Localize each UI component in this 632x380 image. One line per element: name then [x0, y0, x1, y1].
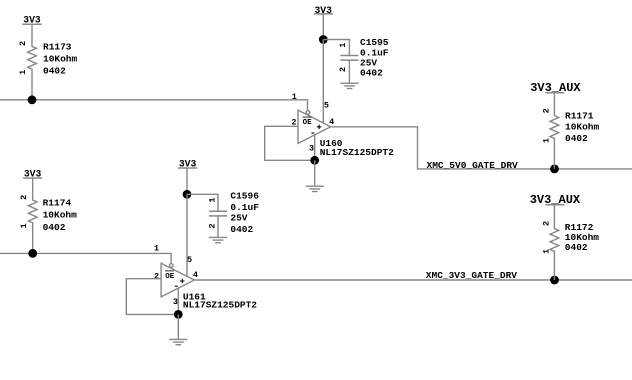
- svg-text:2: 2: [19, 195, 29, 200]
- svg-text:10Kohm: 10Kohm: [43, 210, 78, 221]
- buffer U160 NL17SZ125DPT2: [291, 92, 394, 158]
- svg-text:0402: 0402: [230, 224, 253, 235]
- svg-text:OE: OE: [165, 273, 175, 281]
- svg-text:XMC_5V0_GATE_DRV: XMC_5V0_GATE_DRV: [427, 160, 519, 171]
- ground: C1595: [341, 83, 359, 88]
- svg-text:10Kohm: 10Kohm: [43, 53, 78, 64]
- resistor R1173 10Kohm 0402: [18, 24, 77, 100]
- svg-text:C1596: C1596: [230, 191, 259, 202]
- power symbol 3V3 (above C1596 / U161 VCC): [178, 159, 197, 195]
- svg-text:1: 1: [292, 92, 297, 102]
- junction: R1173 pin 1 on input wire: [28, 95, 37, 104]
- svg-text:0402: 0402: [565, 242, 588, 253]
- wire: 3V3 junction to C1596: [187, 194, 218, 211]
- svg-text:0402: 0402: [43, 222, 66, 233]
- svg-text:0402: 0402: [43, 65, 66, 76]
- junction: 3V3 branch to C1596: [183, 190, 192, 199]
- svg-text:R1173: R1173: [43, 42, 72, 53]
- wire: U161 pin 3 to ground node: [177, 288, 179, 314]
- svg-text:5: 5: [324, 100, 329, 110]
- wire: U161 pin 2 feedback loop to pin 3 node: [126, 279, 178, 315]
- wire: U160 pin 4 output to right edge (XMC_5V0_GATE_DRV): [331, 127, 632, 169]
- svg-text:1: 1: [18, 70, 28, 75]
- junction: U161 pin 3 / pin 2 / ground: [174, 310, 183, 319]
- junction: 3V3 branch to C1595: [319, 35, 328, 44]
- svg-text:0402: 0402: [565, 133, 588, 144]
- power symbol 3V3_AUX (above R1172): [530, 193, 581, 207]
- ground: C1596: [209, 237, 227, 242]
- svg-text:1: 1: [208, 198, 218, 203]
- svg-text:1: 1: [542, 249, 552, 254]
- junction: R1174 pin 1 on input wire: [28, 249, 37, 258]
- svg-text:1: 1: [154, 244, 159, 254]
- capacitor C1595 0.1uF 25V 0402: [338, 37, 389, 83]
- svg-text:C1595: C1595: [360, 37, 389, 48]
- svg-text:25V: 25V: [230, 213, 247, 224]
- svg-text:10Kohm: 10Kohm: [565, 122, 600, 133]
- svg-text:2: 2: [541, 108, 551, 113]
- svg-text:0402: 0402: [360, 68, 383, 79]
- power symbol 3V3 (above R1173): [23, 14, 42, 25]
- svg-text:2: 2: [542, 221, 552, 226]
- svg-text:OE: OE: [303, 119, 313, 127]
- svg-text:5: 5: [187, 255, 192, 265]
- power symbol 3V3_AUX (above R1171): [530, 81, 581, 95]
- wire: U160 pin 2 feedback loop to pin 3 node: [265, 126, 315, 160]
- buffer U161 NL17SZ125DPT2: [154, 244, 257, 311]
- svg-text:2: 2: [154, 272, 159, 282]
- svg-text:0.1uF: 0.1uF: [230, 202, 259, 213]
- resistor R1172 10Kohm 0402: [542, 205, 600, 280]
- svg-text:3: 3: [309, 144, 314, 154]
- svg-text:4: 4: [193, 270, 198, 280]
- junction: R1171 pin 1 on XMC_5V0_GATE_DRV: [550, 165, 559, 174]
- wire: input net from left edge to U160 pin 1 (OE): [0, 100, 308, 111]
- power symbol 3V3 (above C1595 / U160 VCC): [314, 5, 333, 40]
- junction: U160 pin 3 / pin 2 / ground: [310, 156, 319, 165]
- ground: U160 pin 3: [306, 160, 324, 191]
- svg-text:XMC_3V3_GATE_DRV: XMC_3V3_GATE_DRV: [426, 270, 518, 281]
- ground: U161 pin 3: [169, 314, 187, 344]
- wire: 3V3 junction to U160 pin 5: [322, 40, 324, 124]
- wire: U160 pin 3 to ground node: [314, 135, 316, 160]
- svg-text:1: 1: [19, 223, 29, 228]
- svg-text:1: 1: [541, 138, 551, 143]
- junction: R1172 pin 1 on XMC_3V3_GATE_DRV: [550, 276, 559, 285]
- svg-text:R1174: R1174: [43, 198, 72, 209]
- svg-text:2: 2: [18, 41, 28, 46]
- svg-text:R1171: R1171: [565, 111, 594, 122]
- svg-text:2: 2: [338, 67, 348, 72]
- svg-text:4: 4: [329, 117, 334, 127]
- resistor R1171 10Kohm 0402: [541, 93, 599, 169]
- capacitor C1596 0.1uF 25V 0402: [208, 191, 260, 238]
- svg-text:NL17SZ125DPT2: NL17SZ125DPT2: [183, 299, 257, 310]
- resistor R1174 10Kohm 0402: [19, 178, 77, 253]
- power symbol 3V3 (above R1174): [23, 169, 42, 180]
- wire: U161 pin 4 output to right edge (XMC_3V3_GATE_DRV): [194, 279, 632, 281]
- svg-text:1: 1: [338, 43, 348, 48]
- wire: 3V3 junction to U161 pin 5: [186, 194, 188, 276]
- wire: 3V3 junction to C1595: [323, 40, 349, 56]
- svg-text:2: 2: [208, 223, 218, 228]
- svg-text:3: 3: [173, 297, 178, 307]
- svg-text:NL17SZ125DPT2: NL17SZ125DPT2: [320, 147, 394, 158]
- wire: input net from left edge to U161 pin 1 (OE): [0, 253, 171, 263]
